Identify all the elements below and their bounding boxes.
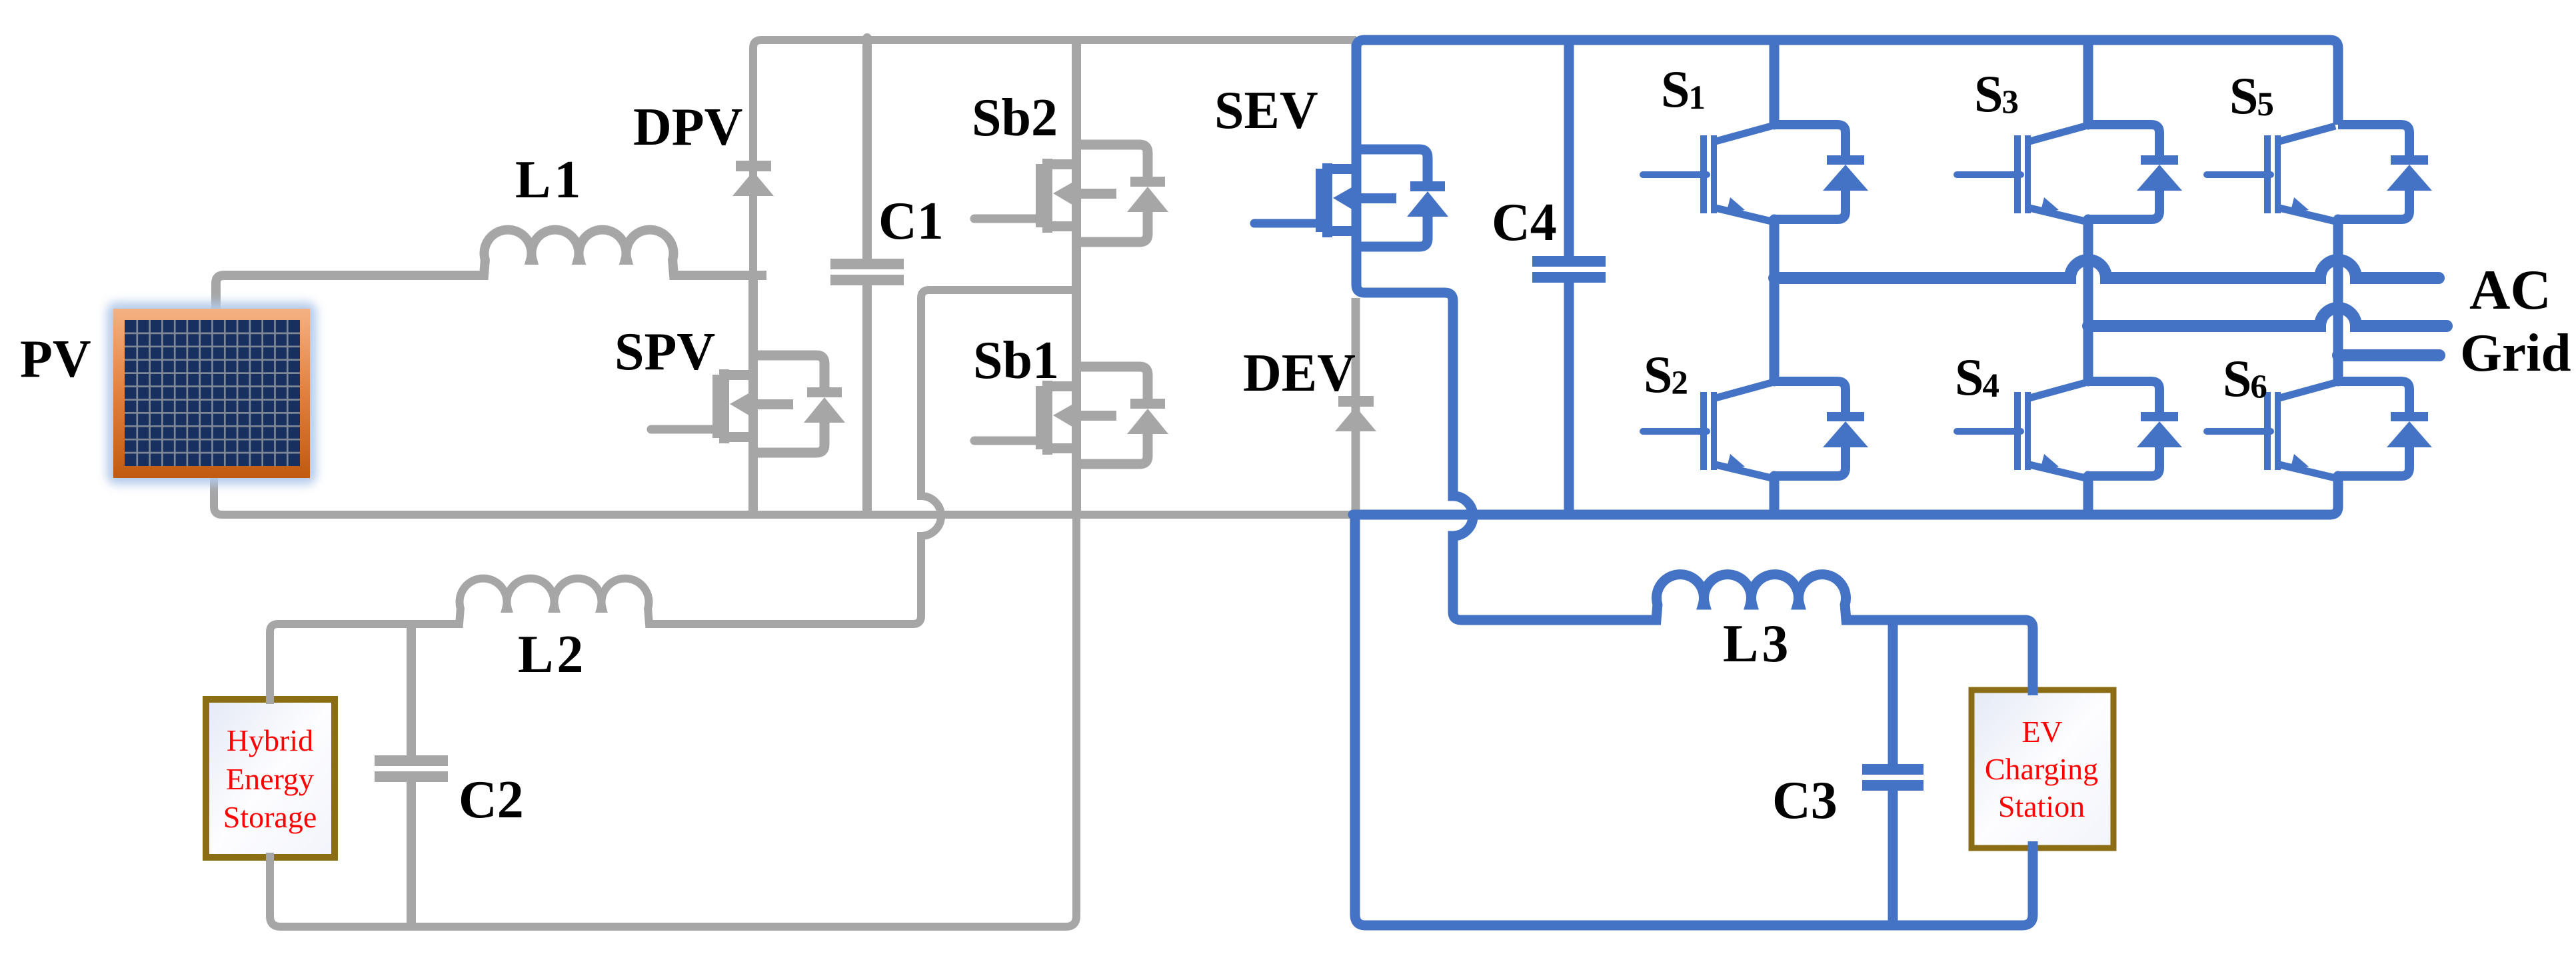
transistor S5 [2207, 125, 2432, 221]
svg-text:S3: S3 [1974, 65, 2019, 123]
svg-text:C1: C1 [878, 192, 944, 251]
PV panel glow [107, 302, 317, 485]
svg-text:S1: S1 [1661, 60, 1706, 118]
svg-text:DEV: DEV [1243, 344, 1356, 403]
transistor S2 [1643, 381, 1868, 478]
Hybrid Energy Storage box [206, 699, 335, 857]
wire Sb column [1072, 44, 1081, 515]
svg-text:DPV: DPV [633, 98, 742, 157]
svg-text:C3: C3 [1772, 771, 1838, 830]
svg-text:Station: Station [1998, 789, 2085, 823]
svg-text:S2: S2 [1644, 345, 1688, 403]
wire S4 emitter lead [2083, 476, 2093, 511]
wire SPV column [748, 275, 758, 515]
svg-text:Grid: Grid [2460, 323, 2571, 383]
svg-text:EV: EV [2021, 715, 2062, 749]
capacitor C4 [1532, 256, 1606, 283]
wire phase line B [2088, 308, 2447, 326]
capacitor C1 [830, 259, 904, 285]
svg-text:PV: PV [20, 330, 91, 389]
wire S1-S2 mid column [1770, 219, 1780, 381]
svg-text:C2: C2 [459, 771, 524, 829]
svg-text:S6: S6 [2223, 349, 2267, 407]
svg-text:S4: S4 [1955, 348, 1999, 406]
capacitor C3 [1862, 764, 1924, 791]
wire SEV source riser (jumps bottom bus) / inductor L3 / to EV box top [1356, 247, 2033, 695]
wire C2 column [407, 624, 416, 927]
svg-text:SEV: SEV [1214, 81, 1318, 140]
PV panel cells [125, 320, 300, 466]
wire blue bottom bus [1353, 476, 2338, 515]
wire HES top / inductor L2 / riser to mid junction (jumps bottom bus) [270, 290, 1078, 704]
transistor S1 [1643, 125, 1868, 221]
svg-text:L3: L3 [1723, 615, 1792, 673]
wire C3 column [1888, 620, 1898, 921]
svg-text:AC: AC [2469, 259, 2551, 321]
svg-text:Energy: Energy [226, 762, 314, 796]
wire DEV lead [1352, 298, 1360, 511]
diode DPV [732, 161, 774, 196]
svg-text:S5: S5 [2229, 67, 2274, 125]
transistor Sb1 [974, 367, 1168, 464]
wire S1 collector lead [1770, 44, 1780, 125]
wire gray bottom bus from PV [214, 478, 1356, 515]
wire S5-S6 mid column [2333, 219, 2343, 381]
PV panel frame [113, 309, 310, 478]
transistor S6 [2207, 381, 2432, 478]
transistor SPV [651, 355, 845, 453]
wire gray bottom loop [270, 465, 1076, 927]
svg-text:L2: L2 [518, 625, 587, 684]
wire PV top to L1 junction, with inductor L1 [216, 230, 766, 309]
wire gray top bus with DPV column [753, 40, 1356, 275]
capacitor C2 [375, 755, 448, 782]
wire S2 emitter lead [1770, 476, 1780, 511]
wire C4 column [1564, 44, 1574, 511]
transistor SEV [1254, 149, 1448, 247]
wire S3-S4 mid column [2083, 219, 2093, 381]
svg-text:Charging: Charging [1985, 752, 2098, 786]
svg-text:C4: C4 [1492, 193, 1557, 252]
wire S3 collector lead [2083, 44, 2093, 125]
wire EV loop [1355, 515, 2033, 925]
wire C1 column [862, 38, 872, 511]
svg-text:Storage: Storage [223, 800, 317, 834]
wire blue top bus [1356, 40, 2338, 157]
wire SEV column [1352, 44, 1362, 248]
svg-text:Sb2: Sb2 [972, 89, 1058, 147]
svg-text:Hybrid: Hybrid [227, 723, 313, 757]
transistor S3 [1957, 125, 2182, 221]
diode DEV [1335, 396, 1376, 431]
wire phase line A [1774, 260, 2439, 278]
svg-text:SPV: SPV [615, 323, 715, 381]
svg-text:Sb1: Sb1 [973, 331, 1059, 390]
wire phase line C [2338, 349, 2439, 361]
transistor S4 [1957, 381, 2182, 478]
svg-text:L1: L1 [515, 151, 584, 209]
transistor Sb2 [974, 145, 1168, 242]
EV Charging Station box [1971, 690, 2113, 848]
